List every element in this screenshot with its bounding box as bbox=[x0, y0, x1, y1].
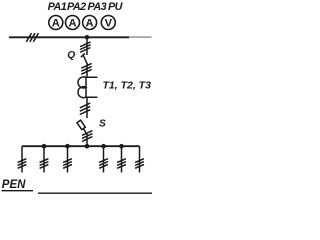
svg-text:A: A bbox=[52, 18, 60, 30]
svg-text:PA2: PA2 bbox=[67, 1, 86, 13]
svg-text:V: V bbox=[105, 18, 113, 30]
svg-text:A: A bbox=[86, 18, 94, 30]
svg-text:PU: PU bbox=[108, 1, 124, 13]
svg-text:PA1: PA1 bbox=[48, 1, 67, 13]
svg-text:Q: Q bbox=[67, 50, 75, 61]
svg-text:PEN: PEN bbox=[2, 179, 26, 191]
svg-text:S: S bbox=[99, 119, 106, 130]
svg-text:A: A bbox=[68, 18, 76, 30]
svg-text:T1, T2, T3: T1, T2, T3 bbox=[103, 80, 152, 92]
svg-text:PA3: PA3 bbox=[88, 1, 107, 13]
